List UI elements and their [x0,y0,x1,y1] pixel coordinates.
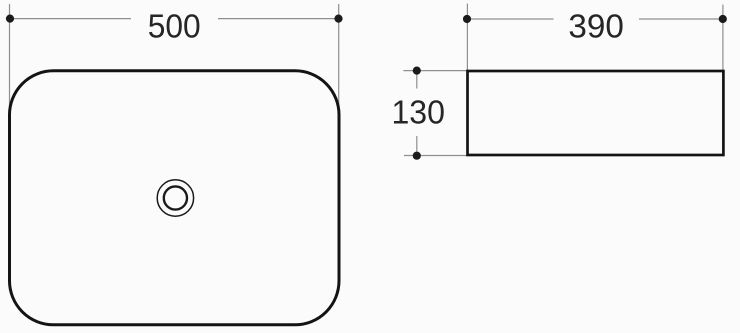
svg-text:390: 390 [568,7,624,44]
svg-text:130: 130 [391,94,445,131]
svg-text:500: 500 [148,7,201,44]
